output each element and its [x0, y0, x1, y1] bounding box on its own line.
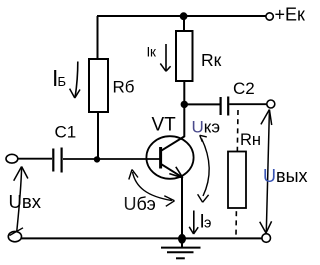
resistor Rk (Rк) body [176, 31, 193, 81]
current arrow Ik [165, 44, 167, 70]
wire C2 to output terminal [229, 103, 267, 105]
capacitor C1 plates [53, 148, 61, 173]
wire Rk bottom to collector node [183, 81, 185, 104]
node junction dot at top rail / Rk [180, 12, 188, 20]
capacitor C2 plates [221, 97, 229, 116]
terminal output bottom open circle [262, 234, 271, 243]
wire input terminal to C1 [18, 158, 52, 160]
svg-text:к: к [150, 45, 156, 60]
terminal output top open circle [267, 100, 275, 108]
svg-text:Rн: Rн [240, 131, 261, 149]
svg-text:Uвх: Uвх [9, 191, 42, 212]
transistor emitter stroke with arrow [162, 164, 183, 177]
wire C1 to base bar [63, 158, 160, 160]
node base junction dot [94, 156, 100, 162]
transistor base bar [159, 147, 162, 169]
svg-text:+Ек: +Ек [275, 5, 306, 25]
svg-text:C2: C2 [233, 79, 255, 98]
transistor collector stroke [161, 136, 185, 151]
node collector junction dot [181, 101, 188, 108]
voltage arrow Uвых double-headed [266, 111, 269, 232]
wire bottom rail [21, 237, 262, 239]
svg-text:C1: C1 [55, 123, 77, 142]
wire top rail [97, 15, 266, 17]
svg-text:Uвых: Uвых [263, 166, 308, 186]
ground symbol [181, 243, 183, 247]
terminal input top open circle [6, 154, 18, 163]
svg-text:Rб: Rб [113, 78, 135, 97]
svg-text:Uкэ: Uкэ [192, 118, 221, 137]
current arrow Ib [75, 62, 78, 97]
wire Rb bottom to base node [97, 112, 99, 159]
transistor VT circle [146, 136, 193, 179]
resistor Rn (Rн) body [228, 152, 246, 209]
wire collector vertical [183, 104, 185, 136]
svg-text:Б: Б [58, 74, 67, 89]
svg-text:VT: VT [152, 115, 177, 136]
svg-text:э: э [204, 216, 211, 232]
node emitter/ground junction dot [178, 234, 186, 244]
wire Rk top stub [183, 16, 185, 31]
terminal +Ek open circle [266, 13, 273, 20]
voltage arrow Uвх [17, 168, 22, 231]
voltage arrow Uбэ curved double-headed [133, 172, 173, 201]
terminal input bottom open circle [8, 231, 21, 241]
wire collector node to C2 [184, 103, 219, 105]
current arrow Ie [193, 211, 195, 233]
svg-text:Uбэ: Uбэ [124, 194, 156, 214]
voltage arrow Uкэ curved double-headed [202, 139, 210, 197]
wire left vertical from rail to Rb [97, 16, 99, 59]
svg-text:Rк: Rк [201, 50, 222, 70]
resistor R6 (Rб) body [89, 59, 108, 112]
wire emitter vertical [181, 178, 183, 239]
load Rн dashed connection line [236, 110, 238, 235]
